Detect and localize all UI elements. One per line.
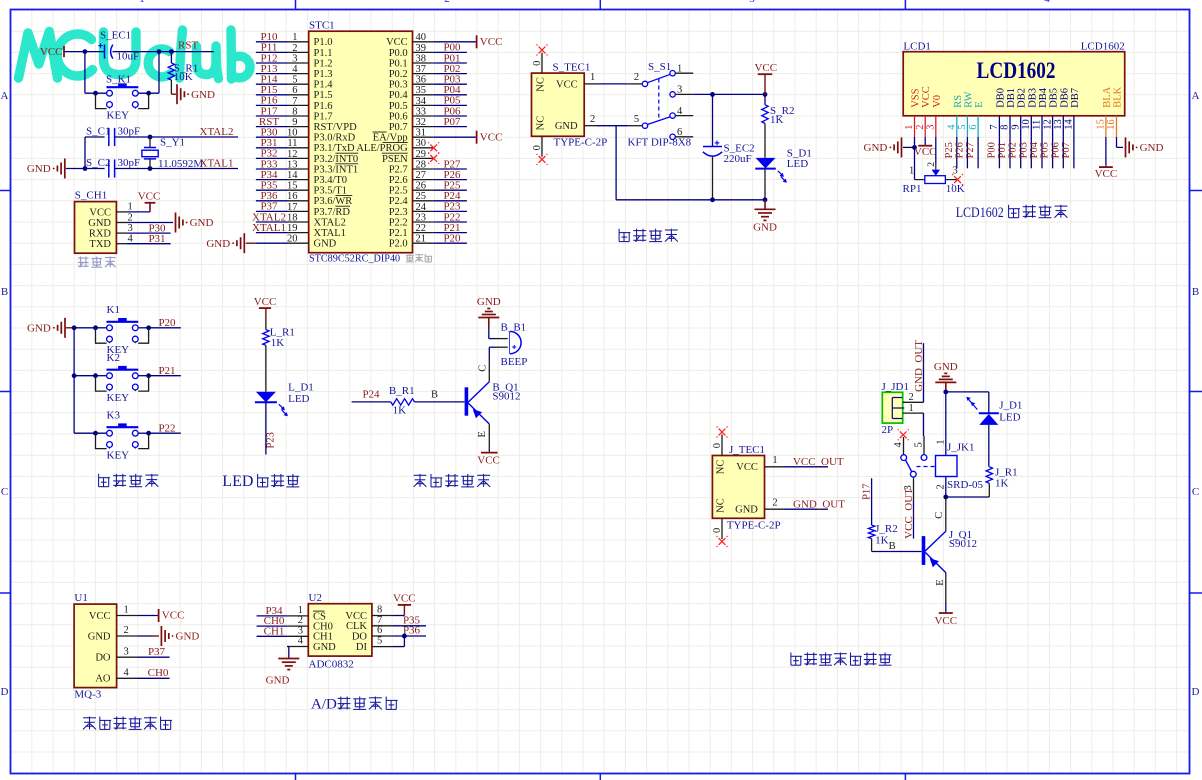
pin 4 (TXD) S_CH1 xyxy=(116,243,127,245)
svg-text:RP1: RP1 xyxy=(903,183,922,195)
pin 27 (P2.6) xyxy=(413,179,434,181)
zone tick top 1 xyxy=(295,0,297,10)
resistor B_R1 1K xyxy=(391,399,415,405)
svg-text:2: 2 xyxy=(936,484,947,489)
svg-text:KEY: KEY xyxy=(107,392,130,404)
wire net P03 xyxy=(434,83,467,85)
wire net P16 (pin 7) xyxy=(256,104,288,106)
wire net P31 (pin 11) xyxy=(256,147,288,149)
svg-text:1K: 1K xyxy=(995,478,1009,490)
relay contact arm xyxy=(905,460,911,472)
wire U2 pin5 loop xyxy=(393,646,404,648)
svg-text:P1.3: P1.3 xyxy=(314,69,333,80)
svg-text:1: 1 xyxy=(139,0,145,5)
svg-text:XTAL1: XTAL1 xyxy=(200,158,234,170)
pin 4 (GND) U2 xyxy=(287,646,308,648)
svg-text:S_S1: S_S1 xyxy=(648,61,671,73)
svg-text:4: 4 xyxy=(677,106,683,117)
pin 0 top J_TEC1 xyxy=(721,435,723,456)
svg-text:GND: GND xyxy=(27,163,51,175)
pin 1 J_JD1 xyxy=(903,412,924,414)
pin 7 (CLK) U2 xyxy=(372,625,393,627)
svg-text:22: 22 xyxy=(416,223,427,234)
svg-text:37: 37 xyxy=(416,64,427,75)
junction xyxy=(943,390,948,395)
ground S_CH1 xyxy=(175,213,177,233)
wire net GND_OUT xyxy=(785,508,828,510)
wire net P34 (pin 14) xyxy=(256,179,288,181)
svg-text:C: C xyxy=(1192,486,1199,498)
transistor B_Q1 S9012 xyxy=(468,382,489,403)
svg-text:RST/VPD: RST/VPD xyxy=(314,122,358,133)
pin 5 (DI) U2 xyxy=(372,646,393,648)
wire LCD P02 xyxy=(1020,137,1022,168)
svg-text:XTAL2: XTAL2 xyxy=(200,126,234,138)
svg-text:TYPE-C-2P: TYPE-C-2P xyxy=(554,136,608,148)
svg-text:P0.7: P0.7 xyxy=(389,122,408,133)
svg-text:5: 5 xyxy=(292,75,297,86)
svg-text:0: 0 xyxy=(712,443,723,448)
wire J_JD1 pin1 to switch pin5 xyxy=(923,413,925,436)
svg-text:VCC: VCC xyxy=(254,296,277,308)
svg-text:A/D: A/D xyxy=(311,697,337,713)
junction xyxy=(148,166,153,171)
pin 33 (P0.6) xyxy=(413,115,434,117)
svg-text:VCC_OUT: VCC_OUT xyxy=(793,456,844,468)
svg-text:RXD: RXD xyxy=(89,229,112,240)
wire key3 row xyxy=(74,432,107,434)
svg-text:P0.2: P0.2 xyxy=(389,69,408,80)
pin 14 (P3.4/T0) xyxy=(288,179,309,181)
svg-text:P2.6: P2.6 xyxy=(389,175,408,186)
zone tick top 3 xyxy=(904,0,906,10)
wire net P06 xyxy=(434,115,467,117)
wire LCD pin3 to RP1 wiper xyxy=(935,137,937,163)
svg-text:P05: P05 xyxy=(1040,142,1051,158)
svg-text:P3.5/T1: P3.5/T1 xyxy=(314,186,348,197)
svg-text:V0: V0 xyxy=(932,95,943,108)
svg-text:P37: P37 xyxy=(148,646,166,658)
wire U2 pin8 VCC xyxy=(393,615,404,617)
svg-text:220uF: 220uF xyxy=(724,153,752,165)
svg-text:6: 6 xyxy=(377,625,382,636)
svg-text:32: 32 xyxy=(416,117,427,128)
svg-text:VCC_OUT: VCC_OUT xyxy=(903,488,915,539)
pin 22 (P2.1) xyxy=(413,232,434,234)
svg-text:GND: GND xyxy=(88,218,111,229)
svg-text:VCC: VCC xyxy=(1095,168,1118,180)
wire key2 row xyxy=(74,375,95,377)
pin 40 (VCC) xyxy=(413,41,434,43)
svg-text:3: 3 xyxy=(128,223,133,234)
svg-text:3: 3 xyxy=(926,125,937,130)
pin 6 (DO) U2 xyxy=(372,635,393,637)
svg-text:1: 1 xyxy=(772,455,777,466)
connector J_TEC1 body xyxy=(712,456,764,519)
svg-text:LED: LED xyxy=(787,158,808,170)
relay contact pin 5 xyxy=(923,436,925,455)
svg-text:STC1: STC1 xyxy=(309,19,335,31)
svg-text:GND: GND xyxy=(735,505,758,516)
svg-text:DI: DI xyxy=(356,642,368,653)
wire LCD P26 xyxy=(966,137,968,168)
svg-text:P24: P24 xyxy=(362,388,380,400)
svg-text:4: 4 xyxy=(124,668,130,679)
svg-text:VCC: VCC xyxy=(914,146,937,158)
IC U1 MQ-3 body xyxy=(74,604,117,688)
wire net P27 xyxy=(434,168,467,170)
svg-text:K3: K3 xyxy=(107,410,121,422)
svg-text:20: 20 xyxy=(287,234,298,245)
power VCC relay xyxy=(939,612,953,614)
wire LCD P00 xyxy=(998,137,1000,168)
pin 3 (CH1) U2 xyxy=(287,635,308,637)
wire S_TEC1 pin2 to switch and rail xyxy=(597,125,628,127)
wire net CH0 U2 xyxy=(257,625,288,627)
wire key left branch xyxy=(84,52,86,94)
relay J_JK1 SRD-05 body xyxy=(936,456,958,477)
svg-text:A: A xyxy=(1192,90,1200,102)
svg-text:10: 10 xyxy=(287,128,298,139)
svg-text:S_Y1: S_Y1 xyxy=(160,137,185,149)
wire net GND_OUT vertical xyxy=(923,343,925,402)
pin 2 J_JD1 xyxy=(903,401,924,403)
wire net P13 (pin 4) xyxy=(256,73,288,75)
wire net P20 xyxy=(138,327,148,329)
junction xyxy=(763,197,768,202)
svg-text:P0.6: P0.6 xyxy=(389,111,408,122)
svg-text:P3.4/T0: P3.4/T0 xyxy=(314,175,348,186)
svg-text:1: 1 xyxy=(677,63,682,74)
zone ticks right xyxy=(1190,190,1202,192)
wire emitter J_Q1 xyxy=(945,573,947,603)
svg-text:NC: NC xyxy=(536,77,547,92)
zone tick top 2 xyxy=(599,0,601,10)
svg-text:VCC: VCC xyxy=(89,207,111,218)
svg-text:30pF: 30pF xyxy=(118,126,141,138)
wire power bottom rail xyxy=(616,199,765,201)
svg-text:13: 13 xyxy=(1053,119,1064,130)
svg-text:VCC: VCC xyxy=(921,86,932,108)
wire net P34 U2 xyxy=(257,615,288,617)
wire net P31 xyxy=(127,243,171,245)
zone tick bottom 3 xyxy=(904,774,906,780)
svg-text:P3.7/RD: P3.7/RD xyxy=(314,207,351,218)
wire relay top to LED xyxy=(946,391,989,393)
svg-text:GND_OUT: GND_OUT xyxy=(913,340,925,392)
wire buzzer pin1 xyxy=(488,327,490,339)
ground keys xyxy=(64,318,66,338)
svg-text:29: 29 xyxy=(416,149,427,160)
svg-text:1: 1 xyxy=(936,440,947,445)
resistor J_R1 1K xyxy=(988,425,990,467)
svg-text:13: 13 xyxy=(287,159,298,170)
pin 4 (AO) U1 xyxy=(117,677,138,679)
LED S_D1 xyxy=(756,158,776,169)
svg-text:GND: GND xyxy=(314,239,337,250)
svg-text:1K: 1K xyxy=(770,114,784,126)
resistor L_R1 1K xyxy=(265,319,267,329)
svg-text:3: 3 xyxy=(749,0,755,5)
zone tick bottom 2 xyxy=(599,774,601,780)
wire net P24 xyxy=(434,200,467,202)
svg-text:DB5: DB5 xyxy=(1049,88,1060,108)
pin 21 (P2.0) xyxy=(413,242,434,244)
svg-text:3: 3 xyxy=(124,646,129,657)
pin 38 (P0.1) xyxy=(413,62,434,64)
wire net VCC_OUT xyxy=(785,466,828,468)
svg-text:LED: LED xyxy=(288,393,309,405)
svg-text:B: B xyxy=(889,541,896,552)
wire net P25 xyxy=(434,189,467,191)
svg-text:VCC: VCC xyxy=(138,191,161,203)
svg-text:S9012: S9012 xyxy=(492,390,520,402)
svg-text:23: 23 xyxy=(416,212,427,223)
title relay control circuit xyxy=(791,653,802,666)
pin 8 (P1.7) xyxy=(288,115,309,117)
wire net P11 (pin 2) xyxy=(256,51,288,53)
junction xyxy=(157,49,162,54)
title key circuit xyxy=(99,474,110,487)
power VCC S_CH1 xyxy=(149,203,151,212)
pin 0 bottom S_TEC1 xyxy=(541,136,543,156)
pin 15 (P3.5/T1) xyxy=(288,189,309,191)
no-ERC mark J_TEC1 bottom xyxy=(719,538,726,545)
svg-text:XTAL1: XTAL1 xyxy=(314,228,346,239)
wire keys common xyxy=(74,327,95,329)
connector J_JD1 body xyxy=(882,392,902,423)
svg-text:2: 2 xyxy=(772,497,777,508)
wire LCD P07 xyxy=(1073,137,1075,168)
resistor J_R2 1K xyxy=(868,525,874,539)
svg-text:15: 15 xyxy=(287,181,298,192)
wire net P30 xyxy=(127,232,171,234)
svg-text:1: 1 xyxy=(124,605,129,616)
svg-text:6: 6 xyxy=(292,85,297,96)
junction xyxy=(72,325,77,330)
wire net XTAL2 (pin 18) xyxy=(256,221,288,223)
wire net P23 xyxy=(434,210,467,212)
svg-text:10: 10 xyxy=(1021,119,1032,130)
svg-text:VSS: VSS xyxy=(911,88,922,107)
svg-text:1: 1 xyxy=(909,403,914,414)
svg-text:RS: RS xyxy=(953,95,964,108)
pin 17 (P3.7/RD) xyxy=(288,210,309,212)
svg-text:S_K1: S_K1 xyxy=(106,73,131,85)
svg-text:J_D1: J_D1 xyxy=(999,399,1022,411)
svg-text:P1.2: P1.2 xyxy=(314,58,333,69)
svg-text:P26: P26 xyxy=(954,142,965,158)
ground relay xyxy=(945,382,947,392)
svg-text:2: 2 xyxy=(915,125,926,130)
svg-text:TYPE-C-2P: TYPE-C-2P xyxy=(727,519,781,531)
title power circuit xyxy=(619,229,630,242)
wire GND pin 20 xyxy=(256,242,288,244)
svg-text:6: 6 xyxy=(968,125,979,130)
wire net P36 xyxy=(393,635,426,637)
svg-text:P0.0: P0.0 xyxy=(389,48,408,59)
svg-text:1: 1 xyxy=(128,202,133,213)
wire LCD pin16 to GND xyxy=(1116,137,1118,148)
pin 9 (RST/VPD) xyxy=(288,126,309,128)
pin 3 (DO) U1 xyxy=(117,656,138,658)
wire net P21 xyxy=(434,232,467,234)
svg-text:P20: P20 xyxy=(443,233,461,245)
comment xiazaikou xyxy=(78,257,89,268)
junction xyxy=(148,135,153,140)
power VCC at pin 40 xyxy=(476,35,478,48)
svg-text:U2: U2 xyxy=(309,592,322,604)
wire LCD P25 xyxy=(956,137,958,168)
svg-text:P31: P31 xyxy=(148,233,165,245)
svg-text:BLA: BLA xyxy=(1102,86,1113,107)
svg-text:VCC: VCC xyxy=(477,455,500,467)
wire XTAL1 xyxy=(115,168,238,170)
no-ERC mark pin 29 xyxy=(430,155,437,162)
svg-text:STC89C52RC_DIP40: STC89C52RC_DIP40 xyxy=(309,254,400,265)
svg-text:VCC: VCC xyxy=(736,462,758,473)
wire net P30 (pin 10) xyxy=(256,136,288,138)
wire net P04 xyxy=(434,94,467,96)
pin 8 (VCC) U2 xyxy=(372,615,393,617)
wire LCD P04 xyxy=(1041,137,1043,168)
power VCC buzzer xyxy=(481,452,498,454)
svg-text:3: 3 xyxy=(677,85,682,96)
pin 20 (GND) xyxy=(288,242,309,244)
svg-text:VCC: VCC xyxy=(934,615,957,627)
power VCC at pin 31 xyxy=(476,131,478,144)
svg-text:15: 15 xyxy=(1096,119,1107,130)
pin 2 (GND) U1 xyxy=(117,635,138,637)
svg-text:11: 11 xyxy=(287,138,297,149)
wire net P24 xyxy=(352,401,391,403)
ground buzzer xyxy=(488,318,490,328)
svg-text:DB7: DB7 xyxy=(1070,88,1081,108)
svg-text:DB6: DB6 xyxy=(1059,88,1070,108)
svg-text:GND: GND xyxy=(477,296,501,308)
svg-text:GND: GND xyxy=(206,238,230,250)
wire net P01 xyxy=(434,62,467,64)
wire net P17 xyxy=(871,478,873,525)
svg-text:2: 2 xyxy=(292,43,297,54)
power VCC U1 xyxy=(158,609,160,622)
wire S_CH1 pin2 to GND xyxy=(127,222,173,224)
svg-text:NC: NC xyxy=(716,498,727,513)
pin 2 (GND) S_CH1 xyxy=(116,222,127,224)
svg-text:P03: P03 xyxy=(1018,142,1029,158)
svg-text:B: B xyxy=(1,286,8,298)
svg-text:RW: RW xyxy=(963,91,974,107)
junction xyxy=(710,92,715,97)
svg-text:3: 3 xyxy=(292,53,297,64)
svg-text:LED: LED xyxy=(999,411,1020,423)
connector S_TEC1 body xyxy=(532,73,585,136)
no-ERC mark RP1 pin3 xyxy=(954,176,961,183)
svg-text:P27: P27 xyxy=(965,142,976,158)
push button K1 xyxy=(93,325,98,330)
svg-text:2P: 2P xyxy=(882,424,894,436)
svg-text:21: 21 xyxy=(416,234,427,245)
svg-text:D: D xyxy=(1,686,9,698)
wire net RST (pin 9) xyxy=(256,126,288,128)
svg-text:GND: GND xyxy=(191,89,215,101)
title buzzer circuit xyxy=(414,474,427,487)
ground crystal xyxy=(64,159,66,179)
svg-text:PSEN: PSEN xyxy=(382,154,408,165)
svg-text:P02: P02 xyxy=(1008,142,1019,158)
svg-text:5: 5 xyxy=(914,442,925,447)
wire buzzer pin2 to Q1 collector xyxy=(495,346,508,348)
svg-text:P3.2/INT0: P3.2/INT0 xyxy=(314,154,359,165)
svg-text:P00: P00 xyxy=(986,142,997,158)
wire reset rail xyxy=(64,51,105,53)
svg-text:P2.1: P2.1 xyxy=(389,228,408,239)
svg-text:36: 36 xyxy=(416,75,427,86)
svg-text:C: C xyxy=(1,486,8,498)
svg-text:38: 38 xyxy=(416,53,427,64)
LED L_D1 xyxy=(265,345,267,391)
svg-text:XTAL1: XTAL1 xyxy=(252,222,286,234)
svg-text:P1.5: P1.5 xyxy=(314,90,333,101)
pin 29 (PSEN) xyxy=(413,157,434,159)
zone ticks left xyxy=(0,190,11,192)
LED J_D1 xyxy=(988,392,990,413)
svg-text:VCC: VCC xyxy=(162,610,185,622)
svg-text:GND: GND xyxy=(313,642,336,653)
svg-text:2: 2 xyxy=(590,114,595,125)
svg-text:VCC: VCC xyxy=(393,592,416,604)
wire collector xyxy=(945,497,947,531)
wire U2 pin4 to GND xyxy=(287,646,289,648)
svg-text:KEY: KEY xyxy=(107,110,130,122)
pin 31 (EA/Vpp) xyxy=(413,136,434,138)
svg-text:GND: GND xyxy=(864,142,888,154)
svg-text:2: 2 xyxy=(634,72,639,83)
svg-text:S_C1: S_C1 xyxy=(86,126,110,138)
capacitor S_EC2 220uF xyxy=(712,94,714,146)
svg-text:9: 9 xyxy=(292,117,297,128)
junction xyxy=(169,49,174,54)
no-ERC mark S_TEC1 bottom xyxy=(539,156,546,163)
power VCC LCD pin2 xyxy=(924,144,926,146)
svg-text:S9012: S9012 xyxy=(949,538,977,550)
svg-text:GND: GND xyxy=(88,631,111,642)
svg-text:VCC: VCC xyxy=(556,79,578,90)
svg-text:P1.6: P1.6 xyxy=(314,101,333,112)
pin 1 (VCC) S_CH1 xyxy=(116,211,127,213)
pin 1 (VCC) U1 xyxy=(117,615,138,617)
pin 36 (P0.3) xyxy=(413,83,434,85)
wire net P23 xyxy=(265,402,267,454)
svg-text:11: 11 xyxy=(1032,120,1043,130)
wire U1 pin1 VCC xyxy=(137,615,158,617)
svg-text:TXD: TXD xyxy=(89,239,111,250)
svg-text:KEY: KEY xyxy=(107,450,130,462)
wire net P15 (pin 6) xyxy=(256,94,288,96)
svg-text:P2.2: P2.2 xyxy=(389,217,408,228)
svg-text:P2.3: P2.3 xyxy=(389,207,408,218)
svg-text:GND: GND xyxy=(266,675,290,687)
svg-text:DB0: DB0 xyxy=(995,88,1006,108)
pin 3 (RXD) S_CH1 xyxy=(116,232,127,234)
svg-text:AO: AO xyxy=(95,674,111,685)
pin 26 (P2.5) xyxy=(413,189,434,191)
svg-text:1: 1 xyxy=(904,125,915,130)
relay pin 2 wire xyxy=(945,477,947,498)
svg-text:40: 40 xyxy=(416,32,427,43)
svg-text:8: 8 xyxy=(1000,125,1011,130)
ground LCD left xyxy=(901,137,903,157)
